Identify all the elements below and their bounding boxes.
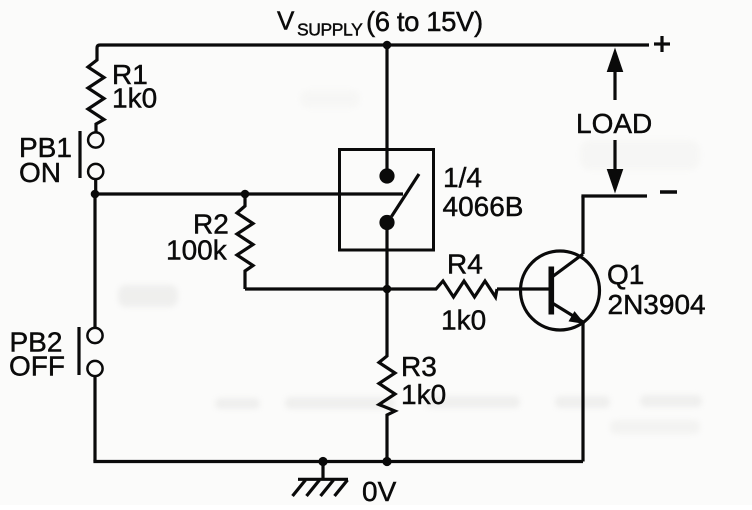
emitter wire (581, 322, 584, 462)
wire PB1 node to PB2 (93, 194, 96, 328)
svg-text:1/4: 1/4 (443, 162, 482, 193)
svg-text:R4: R4 (447, 249, 483, 280)
resistor R4 (434, 281, 497, 297)
svg-text:V: V (277, 6, 295, 36)
control wire to switch (95, 192, 403, 195)
supply rail wire (97, 45, 649, 58)
transistor Q1 emitter arrow (569, 311, 586, 324)
wire supply to switch (385, 45, 388, 176)
svg-text:Q1: Q1 (607, 259, 644, 290)
node D junction (383, 285, 392, 294)
pushbutton PB2 (79, 327, 103, 376)
resistor R3 (379, 354, 395, 462)
collector wire (581, 196, 584, 254)
svg-text:ON: ON (19, 157, 61, 188)
load arrow up (607, 48, 624, 101)
wire node D to R4 (387, 287, 434, 290)
svg-text:4066B: 4066B (443, 191, 524, 222)
transistor Q1 (521, 251, 600, 330)
plus terminal (654, 36, 670, 52)
svg-text:1k0: 1k0 (441, 305, 486, 336)
load arrow down (607, 140, 624, 194)
node C junction for R2 (241, 190, 250, 199)
switch U1 top contact (379, 168, 394, 183)
svg-text:OFF: OFF (9, 351, 65, 382)
analog switch U1 box (340, 150, 434, 251)
resistor R1 (88, 58, 104, 132)
svg-text:R3: R3 (401, 351, 437, 382)
wire R4 to Q1 base (497, 287, 549, 290)
ground rail wire (93, 460, 583, 463)
svg-text:SUPPLY: SUPPLY (297, 20, 363, 40)
wire R2 to node D (245, 287, 387, 290)
wire switch to node D (385, 223, 388, 355)
node B junction (91, 190, 100, 199)
pushbutton PB1 (80, 131, 103, 179)
svg-text:100k: 100k (166, 235, 228, 266)
node F junction R3 to ground rail (382, 457, 391, 466)
minus terminal (660, 190, 677, 193)
wire PB1 to node B (94, 179, 97, 194)
wire PB2 to ground rail (93, 376, 96, 461)
switch U1 bottom contact (379, 215, 394, 230)
svg-text:1k0: 1k0 (401, 379, 446, 410)
svg-text:2N3904: 2N3904 (608, 289, 706, 320)
switch U1 arm (392, 174, 420, 217)
svg-text:1k0: 1k0 (112, 83, 157, 114)
node A junction on supply rail (383, 41, 392, 50)
resistor R2 (237, 194, 253, 289)
svg-text:0V: 0V (362, 476, 397, 505)
node E junction ground symbol tap (318, 457, 327, 466)
load minus wire (581, 194, 647, 197)
svg-text:(6 to 15V): (6 to 15V) (366, 6, 483, 37)
svg-text:LOAD: LOAD (576, 108, 652, 139)
ground (293, 462, 349, 497)
